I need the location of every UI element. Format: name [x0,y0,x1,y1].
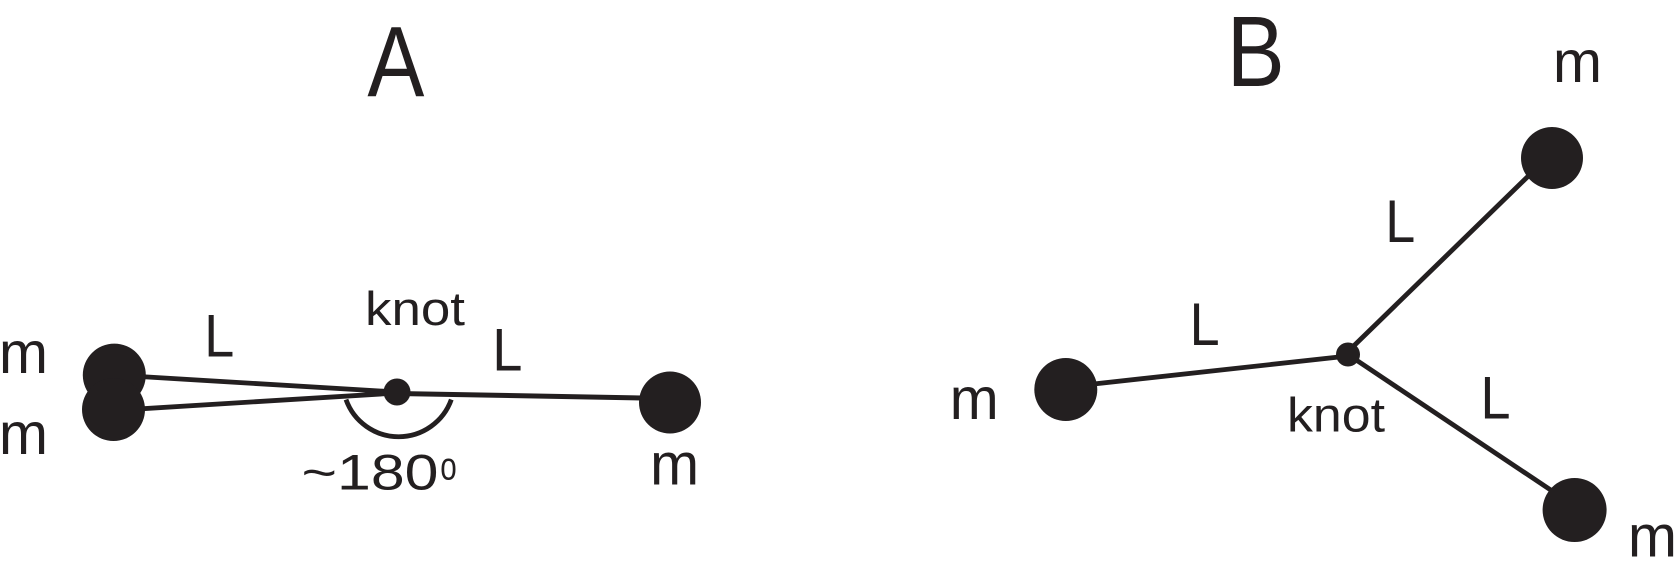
svg-text:m: m [1553,29,1602,95]
svg-text:o: o [440,446,457,489]
svg-text:B: B [1227,0,1285,108]
svg-text:L: L [1481,365,1511,432]
svg-text:knot: knot [365,282,465,335]
svg-text:A: A [367,6,424,118]
svg-text:L: L [492,317,522,384]
svg-text:m: m [0,401,48,467]
svg-text:~180: ~180 [302,445,439,501]
svg-text:m: m [650,432,699,498]
svg-text:m: m [0,320,48,386]
svg-text:L: L [204,302,234,369]
svg-text:m: m [1628,504,1677,570]
svg-text:L: L [1190,291,1220,358]
svg-text:L: L [1385,188,1415,255]
svg-text:knot: knot [1287,390,1385,443]
svg-text:m: m [950,366,999,432]
